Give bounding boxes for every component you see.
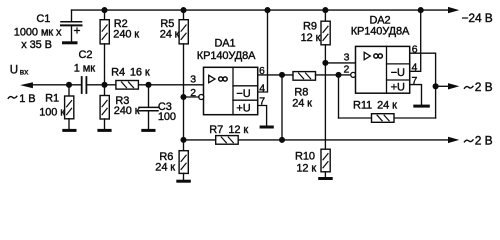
wire: feedback line with R7 to output: [184, 139, 216, 141]
svg-text:вх: вх: [20, 66, 30, 76]
wire: input line Uvx: [31, 84, 81, 86]
svg-text:R9: R9: [303, 20, 317, 32]
svg-text:х 35 В: х 35 В: [21, 39, 52, 51]
svg-text:R1: R1: [45, 93, 59, 105]
svg-text:U: U: [10, 65, 18, 77]
svg-text:+U: +U: [236, 102, 250, 114]
wire: pin 2 DA2: [339, 74, 352, 76]
svg-text:6: 6: [412, 43, 418, 55]
node E: R6/R7 junction: [180, 137, 186, 143]
svg-text:12 к: 12 к: [296, 162, 316, 174]
svg-text:240 к: 240 к: [114, 105, 140, 117]
label R5: [160, 18, 180, 40]
svg-text:1 мк: 1 мк: [74, 63, 95, 75]
pin labels DA1 right: [259, 65, 265, 108]
label ~2 В mid: [464, 80, 492, 94]
svg-text:C2: C2: [79, 49, 93, 61]
svg-text:DA1: DA1: [214, 38, 235, 50]
svg-text:24 к: 24 к: [292, 98, 312, 110]
wire: pin 7 DA2 to ground: [410, 85, 422, 105]
wire: R11 feedback bottom: [339, 117, 372, 119]
node: rail dot R2: [101, 7, 107, 13]
resistor R3: [100, 85, 109, 129]
svg-text:3: 3: [344, 52, 350, 64]
wire: -24V top rail: [72, 9, 450, 11]
wire: pin2 node down to R6/R7: [183, 97, 185, 140]
label ~1 В: [8, 93, 35, 105]
wire: divider down to R10: [324, 63, 326, 149]
resistor R5: [179, 10, 188, 97]
svg-text:R10: R10: [295, 151, 315, 163]
pin labels DA1 left: [190, 74, 196, 99]
svg-text:2: 2: [190, 87, 196, 99]
wire: output tap to arrow: [436, 85, 448, 87]
wire: feedback vertical: [281, 75, 283, 140]
ground (R3): [97, 129, 111, 132]
node: -24V output arrow: [448, 7, 459, 13]
pin 2 bubble DA2: [351, 72, 356, 77]
svg-text:7: 7: [259, 96, 265, 108]
ground (C3): [141, 129, 155, 132]
svg-text:R7: R7: [209, 124, 223, 136]
node D: DA1 pin2 junction: [180, 94, 186, 100]
pin labels DA2 left: [344, 52, 350, 76]
svg-text:2 В: 2 В: [475, 133, 493, 147]
svg-text:16 к: 16 к: [130, 67, 150, 79]
svg-text:C1: C1: [36, 13, 50, 25]
wire: pin 4 DA1 to rail: [258, 10, 268, 92]
svg-text:R4: R4: [111, 67, 125, 79]
svg-text:24 к: 24 к: [160, 28, 180, 40]
label R7 12 к: [209, 124, 248, 136]
node C: C3 junction: [145, 82, 151, 88]
label R2: [113, 18, 139, 40]
svg-text:R11: R11: [353, 100, 372, 112]
svg-text:−U: −U: [236, 88, 250, 100]
svg-text:12 к: 12 к: [228, 124, 248, 136]
resistor R1: [65, 85, 74, 129]
svg-text:240 к: 240 к: [113, 28, 139, 40]
svg-text:24 к: 24 к: [155, 162, 175, 174]
label C1 value: [14, 13, 62, 51]
label DA2: [351, 15, 410, 94]
label R8: [292, 87, 312, 110]
ground (DA2 pin 7): [413, 105, 430, 108]
label R9: [301, 20, 321, 44]
svg-text:−24 В: −24 В: [462, 11, 493, 25]
pin labels DA2 right: [412, 43, 418, 86]
svg-text:КР140УД8А: КР140УД8А: [197, 50, 256, 62]
svg-text:100 к: 100 к: [39, 107, 65, 119]
capacitor C3: [139, 85, 158, 129]
label R4 16 к: [111, 67, 150, 79]
wire: R7 to output node and to right arrow: [238, 139, 448, 141]
node: rail dot DA1 supply: [264, 7, 270, 13]
svg-text:+U: +U: [391, 82, 405, 94]
node: rail dot DA2 supply: [418, 7, 424, 13]
node I: DA2 pin2 junction: [335, 72, 341, 78]
ground (C1): [62, 41, 78, 44]
svg-text:3: 3: [190, 74, 196, 86]
svg-text:−U: −U: [391, 67, 405, 79]
resistor R11: [372, 114, 395, 123]
label ~2 В bottom: [464, 133, 492, 147]
node B: R2/R3/C2/R4 junction: [101, 82, 107, 88]
capacitor C2: [82, 77, 87, 93]
ground (R1): [62, 129, 76, 132]
resistor R6: [179, 140, 188, 180]
node: rail dot R5: [180, 7, 186, 13]
label R3: [114, 95, 140, 117]
svg-text:1 В: 1 В: [19, 93, 35, 105]
label R1: [39, 93, 65, 119]
pin 2 bubble DA1: [199, 95, 204, 100]
svg-text:12 к: 12 к: [301, 32, 321, 44]
wire: pin 6 DA1 output: [258, 74, 293, 76]
node G: pin6 junction: [279, 72, 285, 78]
ground (DA1 pin 7): [260, 126, 274, 129]
node: input arrow: [20, 82, 33, 88]
label R11 24 к: [353, 100, 397, 112]
resistor R9: [321, 10, 330, 63]
resistor R10: [321, 149, 330, 177]
label DA1: [197, 38, 256, 115]
wire: pin 7 DA1 to ground: [258, 106, 267, 126]
label C2: [74, 49, 95, 74]
wire: pin 4 DA2 to rail: [410, 10, 421, 71]
svg-text:2: 2: [344, 64, 350, 76]
resistor R8: [293, 72, 339, 81]
node: bottom ~2V output arrow: [448, 137, 459, 143]
wire: pin 2 DA1: [184, 96, 200, 98]
svg-text:4: 4: [412, 61, 418, 73]
svg-text:4: 4: [259, 82, 265, 94]
svg-text:1000 мк х: 1000 мк х: [14, 27, 62, 39]
resistor R7: [216, 136, 239, 145]
svg-text:7: 7: [412, 75, 418, 87]
node: mid ~2V output arrow: [448, 83, 459, 89]
op-amp DA2: [356, 46, 410, 93]
svg-text:6: 6: [259, 65, 265, 77]
node J: DA2 output tap: [433, 83, 439, 89]
label R6: [155, 151, 175, 174]
svg-text:2 В: 2 В: [475, 80, 493, 94]
label Uвх: [10, 65, 29, 77]
svg-text:КР140УД8А: КР140УД8А: [351, 25, 410, 37]
capacitor C1: [61, 10, 82, 41]
resistor R4: [116, 81, 138, 90]
wire: pin3 DA2: [325, 62, 355, 64]
svg-text:24 к: 24 к: [377, 100, 397, 112]
svg-text:100: 100: [158, 111, 176, 123]
node F: DA1 output feedback junction: [279, 137, 285, 143]
label R10: [295, 151, 316, 175]
label C3: [158, 101, 176, 123]
ground (R10): [318, 177, 333, 180]
op-amp DA1: [204, 67, 258, 114]
ground (R6): [176, 180, 191, 183]
wire: pin 6 DA2 output: [410, 53, 436, 118]
resistor R2: [100, 10, 109, 85]
node A: R1 junction dot: [66, 82, 72, 88]
node: rail dot R9: [322, 7, 328, 13]
node H: DA2 pin3 junction: [322, 60, 328, 66]
